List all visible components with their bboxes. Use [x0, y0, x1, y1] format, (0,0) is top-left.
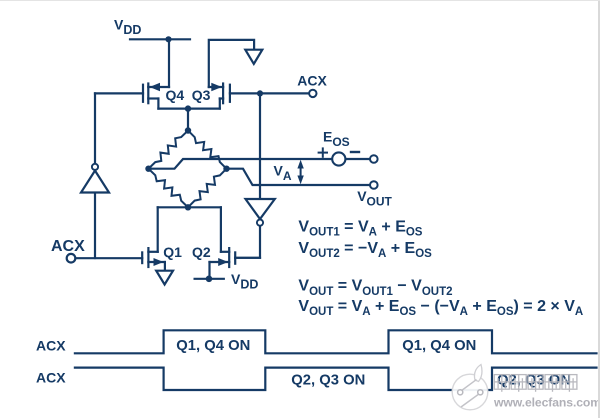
wire EOS to output terminal: [346, 158, 370, 160]
wire VDD tick at Q2 source: [195, 278, 224, 280]
svg-text:ACX: ACX: [297, 72, 327, 88]
EOS source circle: [332, 152, 345, 165]
wire inverter U1 input from ACX: [94, 193, 96, 259]
node bridge bottom: [185, 204, 191, 210]
svg-text:VDD: VDD: [231, 271, 258, 292]
terminal ACX top right: [309, 90, 316, 97]
node bridge left: [145, 166, 151, 172]
svg-text:VOUT = VOUT1 − VOUT2: VOUT = VOUT1 − VOUT2: [298, 278, 452, 298]
wire bridge right node tap to VOUT line: [227, 169, 370, 185]
wire Q3 source to ground: [209, 40, 254, 87]
resistor bridge arm R4: [188, 169, 227, 208]
svg-text:VOUT2 = −VA + EOS: VOUT2 = −VA + EOS: [298, 240, 432, 260]
terminal ACX left: [67, 254, 76, 263]
svg-text:Q1: Q1: [163, 244, 182, 260]
wire VDD to Q4 source: [168, 39, 170, 87]
wire Q4 gate down to inverter U1: [94, 93, 96, 163]
wire rail to bridge top: [187, 109, 189, 131]
wire rail to Q1 drain: [157, 207, 159, 252]
node VDD junction: [165, 36, 171, 42]
terminal VOUT: [370, 181, 378, 189]
svg-text:VOUT = VA + EOS − (−VA + EOS): VOUT = VA + EOS − (−VA + EOS) = 2 × VA: [298, 298, 583, 318]
resistor bridge arm R1: [149, 131, 189, 169]
wire rail to Q2 drain: [220, 207, 222, 252]
inverter U2 (points down): [246, 199, 275, 226]
svg-text:Q1, Q4 ON: Q1, Q4 ON: [176, 338, 250, 354]
svg-text:Q2: Q2: [192, 244, 211, 260]
inverter U1 (points up): [81, 164, 109, 193]
svg-text:VDD: VDD: [114, 16, 141, 37]
minus sign of EOS: [351, 151, 359, 153]
node Q4-Q3 drain junction: [185, 105, 191, 111]
node ACX-Q3 gate junction: [257, 90, 263, 96]
node Q2 source VDD junction: [206, 276, 213, 283]
ground symbol top right: [245, 50, 262, 64]
inverter U2 output to Q2 gate: [235, 226, 260, 257]
watermark logo circle: [452, 365, 488, 410]
wire bottom rail: [158, 206, 221, 208]
transistor Q4: [143, 83, 169, 109]
svg-text:www.elecfans.com: www.elecfans.com: [493, 396, 600, 410]
svg-text:Q1, Q4 ON: Q1, Q4 ON: [402, 338, 476, 354]
waveform ACX bottom: [75, 368, 597, 390]
terminal EOS output: [370, 155, 378, 163]
svg-text:Q2, Q3 ON: Q2, Q3 ON: [291, 372, 365, 388]
resistor bridge arm R2: [188, 131, 227, 169]
wire bridge left node tap to EOS line: [149, 159, 332, 169]
wire top rail between Q4 and Q3 drains: [158, 107, 219, 109]
ground symbol below Q1: [156, 271, 173, 285]
svg-text:ACX: ACX: [36, 369, 66, 385]
svg-text:VOUT: VOUT: [357, 188, 392, 209]
wire Q3 gate to ACX terminal: [230, 92, 309, 94]
watermark chinese characters: [494, 375, 577, 392]
node bridge top: [185, 127, 191, 133]
wire Q2 gate lead: [235, 257, 260, 259]
svg-text:VOUT1 = VA + EOS: VOUT1 = VA + EOS: [298, 218, 422, 238]
VA measurement arrow: [297, 160, 303, 184]
transistor Q2: [210, 248, 236, 279]
svg-text:ACX: ACX: [51, 238, 85, 255]
resistor bridge arm R3: [149, 169, 189, 208]
svg-text:EOS: EOS: [323, 128, 350, 149]
svg-text:ACX: ACX: [36, 338, 66, 354]
svg-text:Q4: Q4: [166, 87, 185, 103]
svg-text:Q3: Q3: [192, 87, 211, 103]
transistor Q3: [209, 83, 230, 109]
plus sign of EOS: [319, 148, 327, 156]
waveform ACX top: [75, 330, 597, 353]
node bridge right: [223, 166, 229, 172]
wire Q3 gate junction down to inverter U2: [259, 93, 261, 199]
transistor Q1: [142, 248, 165, 271]
svg-text:VA: VA: [274, 162, 292, 183]
wire ACX to Q1 gate: [76, 257, 142, 259]
wire Q4 gate lead: [95, 92, 143, 94]
wire VDD rail: [130, 38, 190, 40]
